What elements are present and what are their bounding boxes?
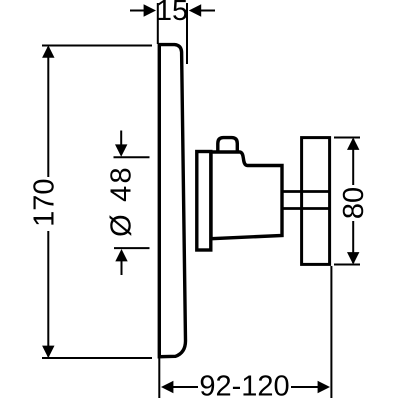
svg-text:Ø 48: Ø 48 <box>106 165 138 237</box>
svg-text:80: 80 <box>338 187 370 219</box>
svg-text:170: 170 <box>29 179 61 227</box>
svg-text:15: 15 <box>156 0 188 27</box>
svg-text:92-120: 92-120 <box>199 371 289 400</box>
